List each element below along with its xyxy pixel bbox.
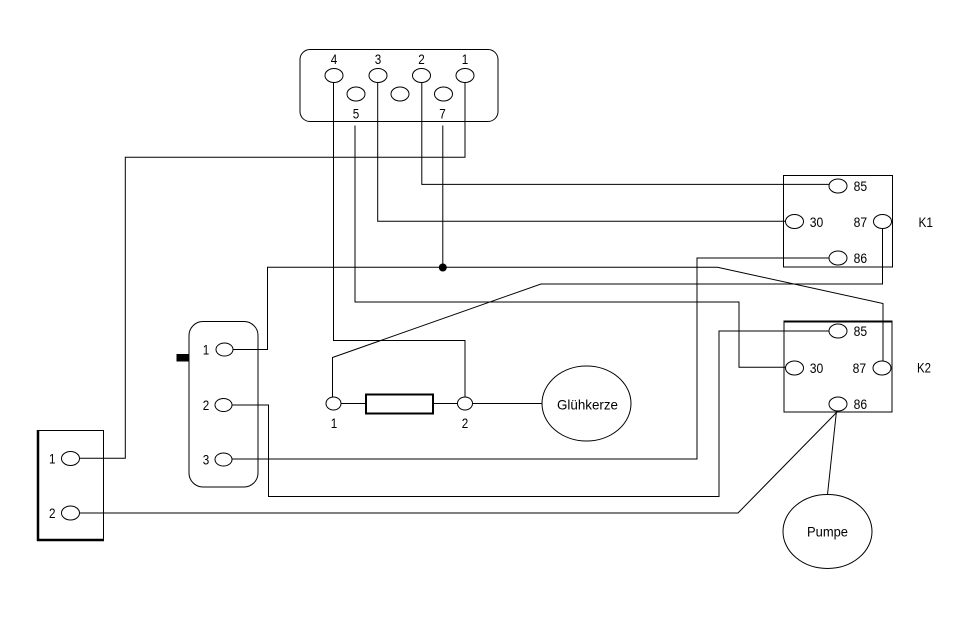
plug X1 left edge thick — [37, 430, 40, 541]
connector J1 pin 3 — [369, 69, 387, 83]
svg-text:4: 4 — [331, 51, 338, 67]
connector J1 pin 5 — [347, 87, 365, 101]
node A junction dot — [439, 264, 447, 272]
connector J1 pin 1 — [456, 69, 474, 83]
relay K2 top edge thick — [784, 321, 893, 323]
svg-text:30: 30 — [810, 360, 824, 376]
wire connector pin4 to resistor pin2 — [334, 83, 466, 398]
connector J1 pin 6 — [391, 87, 409, 101]
relay K1 pin 87 — [874, 215, 892, 229]
svg-text:2: 2 — [49, 505, 56, 521]
wire connector pin3 to K1 30 — [378, 83, 786, 222]
svg-text:87: 87 — [853, 360, 867, 376]
connector J1 pin 2 — [413, 69, 431, 83]
relay K2 pin 30 — [786, 361, 804, 375]
svg-text:87: 87 — [854, 214, 868, 230]
svg-text:86: 86 — [854, 396, 868, 412]
resistor R1 pin 1 — [326, 397, 341, 410]
plug X1 pin 1 — [62, 452, 80, 466]
wire connector pin1 to plug X1 pin1 — [80, 83, 466, 459]
svg-text:85: 85 — [854, 323, 868, 339]
svg-text:Glühkerze: Glühkerze — [557, 397, 618, 413]
relay K2 pin 85 — [829, 324, 847, 338]
wire K2 86 to Pumpe — [828, 411, 837, 495]
svg-text:85: 85 — [854, 178, 868, 194]
svg-text:2: 2 — [203, 397, 210, 413]
plug X1 bottom edge thick — [37, 539, 104, 542]
wire K1 87 to resistor pin1 — [333, 229, 883, 398]
wire plug X1 pin2 to K2 86 — [80, 411, 839, 513]
Gluehkerze (glow plug) — [542, 366, 631, 441]
svg-text:2: 2 — [418, 51, 425, 67]
svg-text:3: 3 — [375, 51, 382, 67]
resistor R1 pin 2 — [458, 397, 473, 410]
connector J1 pin 4 — [325, 69, 343, 83]
wire resistor pin2 to Gluehkerze — [473, 403, 543, 405]
svg-text:5: 5 — [353, 106, 360, 122]
svg-text:2: 2 — [462, 415, 469, 431]
svg-text:1: 1 — [49, 451, 56, 467]
plug X1 pin 2 — [62, 506, 80, 520]
relay K2 body — [784, 322, 892, 412]
plug X2 pin 1 — [216, 343, 233, 356]
wire K1 86 to plug X2 pin3 — [232, 258, 829, 459]
plug X2 body — [189, 322, 258, 488]
relay K1 pin 85 — [829, 179, 847, 193]
relay K2 pin 86 — [829, 397, 847, 411]
svg-text:K2: K2 — [917, 360, 931, 376]
wire plug X2 pin1 via node A to K2 87 — [233, 267, 884, 361]
plug X2 pin 3 — [215, 453, 232, 466]
relay K1 pin 30 — [786, 215, 804, 229]
connector J1 body — [300, 50, 498, 122]
svg-text:1: 1 — [462, 51, 469, 67]
plug X2 pin 2 — [215, 399, 232, 412]
wire R1 body to resistor pin2 stub — [433, 403, 458, 405]
plug X1 body — [38, 431, 104, 541]
svg-text:7: 7 — [439, 106, 446, 122]
svg-text:K1: K1 — [919, 214, 934, 230]
wire connector pin2 to K1 85 — [422, 83, 829, 185]
svg-text:30: 30 — [810, 214, 824, 230]
svg-text:1: 1 — [203, 342, 210, 358]
resistor R1 body — [366, 395, 433, 414]
wire connector pin5 to K2 30 — [355, 126, 786, 368]
connector J1 pin 7 — [435, 87, 453, 101]
wire plug X2 pin2 to K2 85 — [232, 331, 829, 497]
wire resistor pin1 stub to R1 body — [341, 403, 366, 405]
relay K2 pin 87 — [873, 361, 891, 375]
svg-text:86: 86 — [854, 250, 868, 266]
Pumpe (pump) — [783, 495, 872, 569]
relay K1 pin 86 — [829, 251, 847, 265]
svg-text:Pumpe: Pumpe — [807, 524, 848, 540]
svg-text:1: 1 — [331, 415, 338, 431]
plug X2 key tab — [177, 354, 190, 362]
wire connector pin7 to node A — [442, 126, 444, 268]
relay K1 body — [784, 176, 893, 268]
svg-text:3: 3 — [203, 452, 210, 468]
